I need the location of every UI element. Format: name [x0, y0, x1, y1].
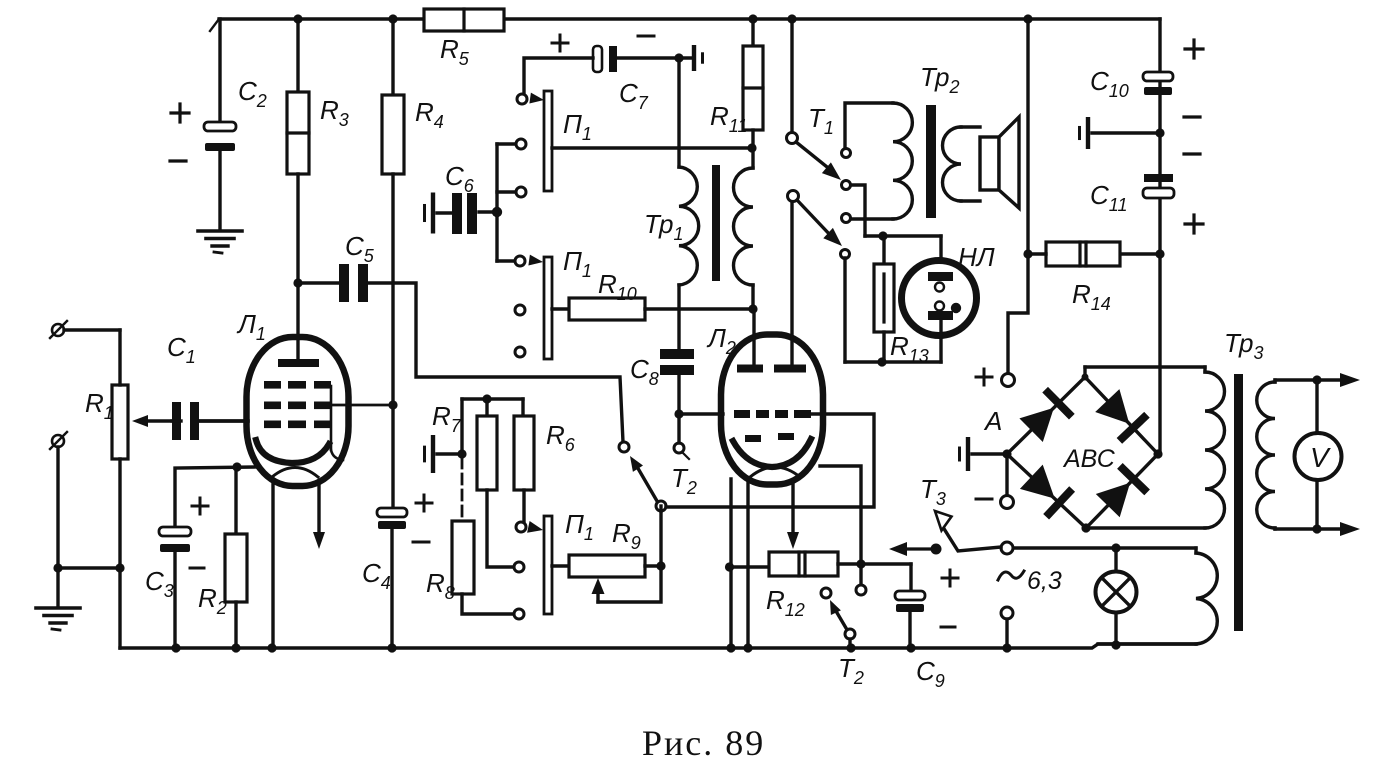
svg-text:A: A [983, 406, 1002, 436]
svg-text:6,3: 6,3 [1027, 567, 1062, 595]
svg-text:НЛ: НЛ [958, 242, 995, 272]
svg-text:Рис. 89: Рис. 89 [642, 723, 765, 763]
svg-text:V: V [1310, 442, 1331, 473]
svg-text:АВС: АВС [1062, 445, 1116, 473]
